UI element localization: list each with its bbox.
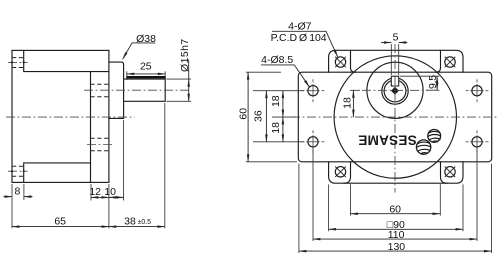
center dot [391, 87, 399, 95]
svg-text:36: 36 [252, 110, 264, 122]
side view body outline [12, 50, 109, 182]
center line port top [8, 61, 28, 63]
dim 60 left [246, 71, 281, 73]
dim 9.5 [400, 75, 439, 77]
bolt hole Ø8.5 top-left [302, 79, 325, 102]
svg-text:10: 10 [104, 186, 116, 198]
svg-text:5: 5 [393, 32, 399, 44]
dim 10 [123, 120, 125, 201]
svg-text:38: 38 [124, 215, 136, 227]
boss circle Ø38 [367, 62, 423, 118]
bolt hole Ø8.5 bottom-right [466, 130, 489, 153]
svg-text:18: 18 [270, 122, 282, 134]
ear inner edge top-left [351, 50, 356, 72]
svg-text:60: 60 [389, 204, 401, 216]
dim 36 left [253, 90, 304, 92]
svg-text:4-Ø8.5: 4-Ø8.5 [261, 54, 293, 66]
svg-text:8: 8 [14, 186, 20, 198]
bore circle Ø15 [384, 80, 406, 102]
svg-text:SESAME: SESAME [358, 132, 417, 147]
hidden port lines top block [12, 57, 24, 59]
ear inner edge top-right [436, 50, 441, 72]
hidden bolt hole lower in plate [91, 137, 109, 139]
key slot [391, 76, 398, 86]
lower hole center line side view [87, 144, 112, 146]
side view port block step top [24, 50, 109, 71]
dim 25 [126, 71, 128, 76]
ear inner edge bottom-right [441, 162, 448, 183]
ear inner edge bottom-left [344, 162, 351, 183]
svg-text:60: 60 [237, 108, 249, 120]
svg-text:Ø15h7: Ø15h7 [179, 38, 191, 72]
dim 60 bottom [350, 184, 352, 215]
horizontal center line body front view [291, 116, 497, 118]
side view front plate line [90, 72, 92, 183]
body center line side view [6, 116, 135, 118]
svg-text:18: 18 [341, 97, 353, 109]
front view plate 130x60 [298, 72, 491, 162]
logo mark two sesame balls [416, 130, 441, 155]
ear hole Ø7 bottom-right [445, 167, 456, 178]
front view square bottom edge with ears [329, 162, 463, 183]
dim Ø15h7 [167, 78, 192, 80]
dim □90 bottom [328, 184, 330, 231]
dim 8 [11, 184, 13, 200]
front view square top edge with ears [329, 50, 463, 72]
hidden port lines bottom block [12, 165, 24, 167]
shaft center line side view [84, 89, 190, 91]
dim 110 bottom [312, 148, 314, 242]
side view shaft flat start [126, 76, 128, 79]
svg-text:4-Ø7: 4-Ø7 [288, 21, 312, 33]
ear hole Ø7 bottom-left [335, 167, 346, 178]
side view shaft [124, 77, 166, 102]
dim 12 [90, 184, 92, 201]
side view port block step bottom [24, 163, 91, 183]
hidden bolt hole upper in plate [91, 83, 109, 85]
vertical center line front view [394, 44, 396, 193]
svg-text:18: 18 [270, 95, 282, 107]
dim 38 ±0.5 [164, 103, 166, 228]
svg-text:9.5: 9.5 [427, 75, 439, 89]
svg-text:130: 130 [388, 241, 406, 253]
bore chamfer circle [382, 78, 408, 104]
bolt hole Ø8.5 top-right [466, 79, 489, 102]
bolt hole Ø8.5 bottom-left [302, 130, 325, 153]
side view boss [109, 62, 124, 118]
body circle [334, 56, 456, 178]
svg-text:110: 110 [388, 229, 405, 241]
svg-text:65: 65 [54, 215, 66, 227]
dim 130 bottom [298, 164, 300, 254]
dim 18 18 left [272, 116, 296, 118]
ear hole Ø7 top-right [445, 57, 456, 68]
svg-text:12: 12 [89, 186, 101, 198]
svg-text:±0.5: ±0.5 [138, 219, 152, 226]
horizontal center line shaft front view [362, 89, 428, 91]
svg-text:P.C.D Ø 104: P.C.D Ø 104 [271, 32, 327, 44]
center line port bottom [8, 170, 28, 172]
dim 65 [11, 200, 13, 228]
side view shaft key flat thick line [127, 76, 165, 78]
ear hole Ø7 top-left [335, 57, 346, 68]
svg-text:25: 25 [140, 61, 152, 73]
dim 18 offset [350, 89, 360, 91]
